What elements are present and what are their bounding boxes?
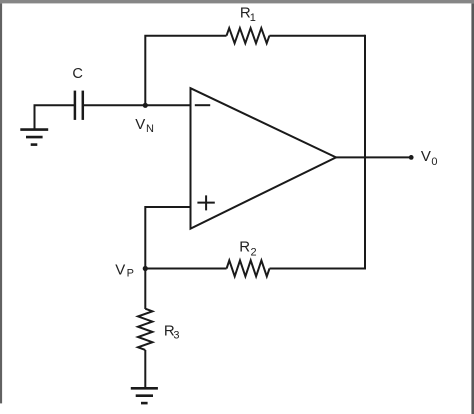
resistor R1 bbox=[227, 28, 270, 43]
op-amp U1 bbox=[191, 88, 337, 228]
wire node VP to R2 bbox=[145, 268, 226, 270]
svg-text:C: C bbox=[72, 66, 83, 82]
label V0 bbox=[421, 148, 438, 168]
node VN junction dot bbox=[143, 103, 148, 108]
wire op-amp noninverting input to node VP bbox=[145, 207, 190, 269]
top border bar bbox=[0, 0, 474, 3]
wire R1 to right vertical bbox=[269, 35, 365, 37]
wire right vertical (feedback bus) bbox=[364, 35, 366, 270]
label R3 bbox=[164, 322, 180, 341]
capacitor C bbox=[75, 91, 83, 120]
label VP bbox=[115, 261, 134, 279]
svg-text:R: R bbox=[239, 238, 250, 255]
svg-text:V: V bbox=[421, 148, 431, 165]
wire node VN up and right to R1 bbox=[145, 36, 226, 106]
resistor R2 bbox=[227, 260, 270, 276]
wire node VP down to R3 bbox=[144, 269, 146, 310]
wire R2 to right vertical bbox=[270, 268, 366, 270]
ground (below R3) bbox=[131, 388, 158, 403]
ground (left, at capacitor input) bbox=[20, 130, 48, 145]
svg-text:3: 3 bbox=[173, 330, 179, 342]
op-amp plus marker bbox=[197, 195, 214, 210]
label R2 bbox=[239, 238, 256, 258]
op-amp minus marker bbox=[195, 104, 210, 106]
label VN bbox=[135, 116, 154, 135]
svg-text:N: N bbox=[146, 123, 154, 135]
right border bbox=[471, 3, 474, 414]
svg-text:P: P bbox=[127, 268, 134, 280]
svg-text:V: V bbox=[135, 116, 145, 133]
wire capacitor to op-amp inverting input bbox=[83, 104, 191, 106]
svg-text:1: 1 bbox=[250, 12, 256, 24]
node VP junction dot bbox=[143, 266, 148, 271]
wire R3 to ground bbox=[144, 350, 146, 388]
wire ground to capacitor bbox=[35, 105, 75, 129]
left border bbox=[0, 3, 2, 403]
svg-text:0: 0 bbox=[431, 156, 437, 168]
node V0 output terminal dot bbox=[409, 155, 414, 160]
svg-text:V: V bbox=[115, 261, 125, 278]
label R1 bbox=[240, 4, 256, 23]
resistor R3 bbox=[138, 309, 152, 350]
wire op-amp output bbox=[336, 156, 411, 158]
svg-text:2: 2 bbox=[251, 247, 257, 259]
